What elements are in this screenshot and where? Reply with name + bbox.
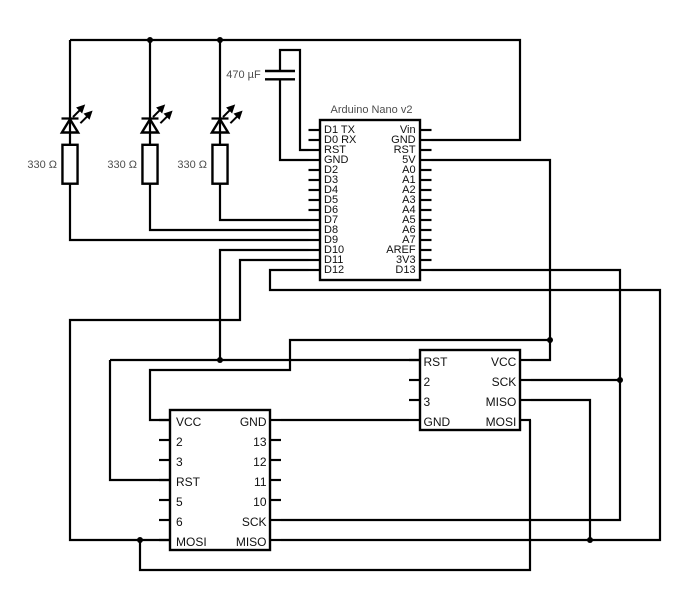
label R2 value 330 ohm: [107, 159, 137, 171]
transistor U2 body (bottom-left SPI device): [170, 410, 270, 550]
junction SCK net: [617, 377, 623, 383]
U2 right pin stubs: [270, 420, 281, 540]
wire LED D2 cathode to D8: [150, 184, 309, 230]
wire U3 SCK branch: [531, 379, 620, 381]
resistor R2: [142, 145, 157, 184]
U2 left pin stubs: [159, 420, 170, 540]
wire LED D1 cathode to D9: [70, 184, 309, 240]
label C1 value 470 uF: [226, 69, 260, 81]
wire RST net horizontal to U3 RST: [110, 359, 420, 361]
wire 5V to VCC node: [432, 160, 551, 340]
U1 right pin labels Vin..D13: [400, 124, 416, 136]
wire C1 bottom plate to Arduino GND: [280, 80, 309, 161]
wire LED D3 cathode to D7: [220, 184, 309, 220]
U3 left pin stubs: [409, 360, 420, 420]
capacitor C1: [265, 71, 295, 79]
wire MISO net (U2 MISO to D12): [270, 270, 660, 540]
wire VCC rail to U2 VCC: [150, 340, 550, 420]
U2 left pin labels VCC,2,3,RST,5,6,MOSI: [176, 415, 201, 429]
wire LED D2 column: [149, 40, 151, 145]
wire D10 to RST net: [220, 250, 309, 360]
junction MISO net: [587, 537, 593, 543]
U2 right pin labels GND,13,12,11,10,SCK,MISO: [240, 415, 267, 429]
U3 left pin labels RST,2,3,GND: [424, 355, 448, 369]
U3 right pin labels VCC,SCK,MISO,MOSI: [491, 355, 516, 369]
LED D1: [62, 105, 92, 132]
label R3 value 330 ohm: [177, 159, 207, 171]
transistor U3 body (right SPI device): [420, 350, 520, 430]
wire LED D1 column: [69, 40, 71, 145]
label R1 value 330 ohm: [27, 159, 57, 171]
resistor R3: [212, 145, 227, 184]
wire D13 / SCK net: [281, 270, 620, 520]
LED D2: [142, 105, 172, 132]
U1 left pin stubs: [309, 130, 321, 270]
junction RST net / D10: [217, 357, 223, 363]
LED D3: [212, 105, 242, 132]
op-amp U1 Arduino Nano v2 body: [320, 120, 420, 280]
U1 left pin labels D1 TX..D12: [324, 124, 355, 136]
junction MOSI net: [137, 537, 143, 543]
label U1 title Arduino Nano v2: [272, 104, 472, 116]
junction VCC node: [547, 337, 553, 343]
junction top rail / LED D2: [147, 37, 153, 43]
wire LED D3 column: [219, 40, 221, 145]
wire U2 GND to U3 GND: [281, 419, 409, 421]
resistor R1: [62, 145, 77, 184]
wire U3 MISO branch: [531, 400, 590, 540]
wire RST net to U2 RST: [110, 360, 170, 480]
wire D11 / MOSI net: [70, 260, 309, 540]
wire top rail (LED anodes to Arduino GND pin): [70, 40, 520, 140]
wire U3 VCC stub riser: [531, 340, 550, 360]
U3 right pin stubs: [520, 360, 531, 420]
junction top rail / LED D3: [217, 37, 223, 43]
wire MOSI branch to U3 MOSI: [140, 420, 530, 570]
wire C1 top plate to Arduino RST: [280, 50, 309, 150]
U1 right pin stubs: [420, 130, 432, 270]
